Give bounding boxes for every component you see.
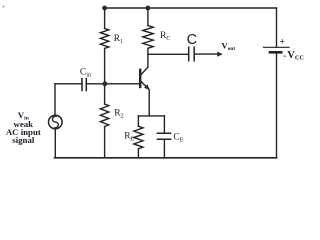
wire RE top lead xyxy=(137,116,139,126)
capacitor C plates xyxy=(189,47,195,60)
wire R1 bottom lead xyxy=(104,48,106,83)
AC source circle xyxy=(49,115,63,129)
svg-text:+: + xyxy=(279,37,285,48)
svg-text:R1: R1 xyxy=(114,34,123,45)
svg-text:Cin: Cin xyxy=(80,68,91,79)
Vout arrowhead xyxy=(217,52,223,57)
wire bottom rail xyxy=(55,157,277,159)
svg-text:VCC: VCC xyxy=(287,50,304,62)
resistor R2 xyxy=(100,104,108,126)
wire CE bottom lead xyxy=(163,139,165,158)
wire Vout arrow shaft xyxy=(194,53,218,55)
wire RC bottom lead / collector vertical xyxy=(147,48,149,67)
wire emitter vertical xyxy=(148,90,150,116)
svg-text:Vout: Vout xyxy=(221,40,235,52)
wire R2 bottom lead xyxy=(104,127,106,158)
svg-text:R2: R2 xyxy=(114,109,123,120)
wire input to Cin xyxy=(55,83,82,85)
svg-text:signal: signal xyxy=(12,135,35,145)
wire emitter junction bar xyxy=(138,115,164,117)
svg-text:RC: RC xyxy=(160,31,170,42)
svg-text:RE: RE xyxy=(124,132,134,143)
capacitor CE plates xyxy=(157,133,170,139)
battery VCC long plate xyxy=(264,46,290,48)
resistor R1 xyxy=(100,28,108,48)
svg-text:CE: CE xyxy=(173,133,183,144)
svg-text:C: C xyxy=(187,32,197,48)
battery VCC short plate xyxy=(270,51,281,54)
wire R1 top lead xyxy=(104,8,106,28)
AC source sine symbol xyxy=(52,116,58,128)
wire RE bottom lead xyxy=(137,149,139,158)
transistor Q1 collector diagonal xyxy=(141,67,148,74)
wire top rail xyxy=(105,7,277,9)
wire right vertical (battery to bottom) xyxy=(276,52,278,158)
capacitor Cin plates xyxy=(82,79,86,91)
resistor RC xyxy=(143,26,153,49)
transistor Q1 base bar xyxy=(139,70,141,87)
emitter arrowhead xyxy=(144,84,150,90)
stray speck top-left xyxy=(3,6,5,8)
wire left vertical (source branch top) xyxy=(54,84,56,116)
svg-text:-: - xyxy=(283,51,286,61)
wire CE top lead xyxy=(163,116,165,133)
wire left vertical (source branch bottom) xyxy=(54,129,56,158)
node dot top RC xyxy=(146,6,151,11)
resistor RE xyxy=(134,126,143,148)
wire right vertical (top, to battery) xyxy=(276,8,278,47)
wire RC top lead xyxy=(147,8,149,26)
node dot base xyxy=(103,81,108,86)
node dot top-left xyxy=(102,6,107,11)
wire base (Cin to transistor) xyxy=(86,83,139,85)
wire output (collector to C) xyxy=(148,53,189,55)
transistor Q1 emitter diagonal xyxy=(141,81,148,88)
wire R2 top lead xyxy=(104,84,106,104)
